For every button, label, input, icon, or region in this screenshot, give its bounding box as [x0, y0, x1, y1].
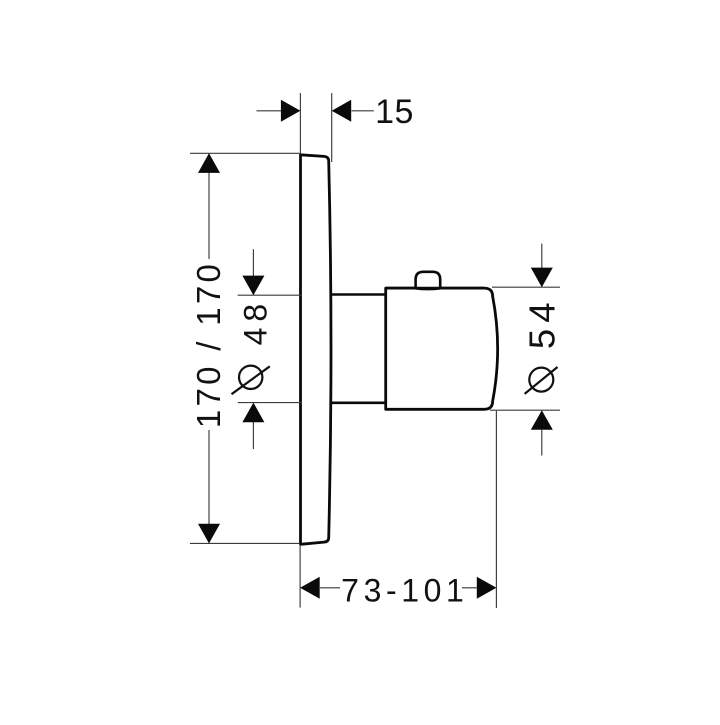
thermostat knob: [386, 288, 498, 409]
svg-text:170 / 170: 170 / 170: [190, 261, 227, 428]
svg-text:15: 15: [375, 93, 414, 131]
dimension 73-101: extension and dimension lines: [300, 411, 496, 608]
dimension 170/170: top arrowhead: [198, 153, 220, 173]
svg-text:48: 48: [237, 298, 273, 346]
svg-text:73-101: 73-101: [341, 572, 468, 608]
dimension diameter 48: extension and dimension lines: [238, 249, 302, 449]
dimension diameter 48: upper arrowhead: [242, 276, 264, 296]
dimension 15: left arrowhead: [281, 100, 301, 122]
dimension 73-101: left arrowhead: [300, 577, 320, 599]
knob top line restored: [386, 287, 484, 290]
shaft sleeve: [329, 295, 387, 403]
dimension diameter 48: value label (rotated): [237, 298, 273, 346]
escutcheon plate: [301, 155, 332, 545]
safety button on knob: [416, 272, 441, 289]
dimension 15: extension and dimension lines: [257, 93, 374, 162]
diameter symbol for 54: [525, 367, 558, 394]
dimension 73-101: right arrowhead: [477, 577, 497, 599]
diameter symbol for 48: [232, 366, 270, 395]
dimension 170/170: value label (rotated): [190, 261, 227, 428]
dimension 170/170: extension and dimension lines: [190, 153, 300, 543]
dimension 15: right arrowhead: [332, 100, 352, 122]
svg-text:54: 54: [522, 296, 563, 349]
dimension diameter 54: value label (rotated): [522, 296, 563, 349]
dimension 170/170: bottom arrowhead: [198, 524, 220, 544]
dimension diameter 48: lower arrowhead: [242, 403, 264, 423]
dimension diameter 54: upper arrowhead: [531, 268, 553, 288]
dimension diameter 54: lower arrowhead: [531, 410, 553, 430]
dimension diameter 54: extension and dimension lines: [490, 244, 560, 456]
